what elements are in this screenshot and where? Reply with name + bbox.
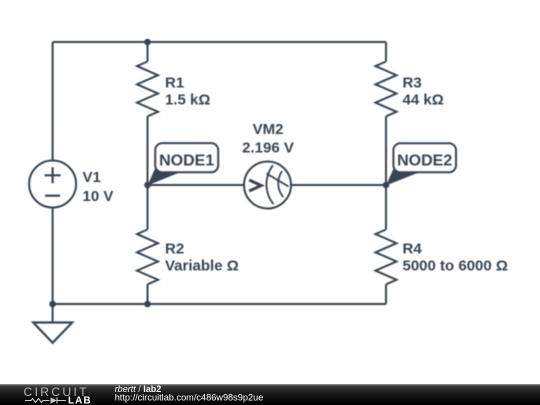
- junction bottom of R2: [144, 301, 151, 308]
- svg-text:R1: R1: [165, 75, 184, 92]
- logo resistor squiggle: [25, 399, 50, 403]
- wire R2 bottom stub: [147, 284, 149, 304]
- svg-text:LAB: LAB: [68, 395, 92, 405]
- VM2 meter arc left: [266, 165, 273, 204]
- wire NODE1 to voltmeter: [148, 184, 245, 186]
- wire R3 to NODE2: [385, 116, 387, 185]
- VM2 chevron: [249, 180, 261, 191]
- junction ground: [49, 301, 56, 308]
- NODE1 pointer tail: [148, 168, 183, 186]
- resistor R4: [376, 230, 397, 285]
- wire R1 to NODE1: [147, 116, 149, 185]
- resistor R1: [137, 62, 158, 117]
- V1 plus sign: [45, 167, 61, 183]
- junction NODE2: [383, 182, 390, 189]
- svg-text:10 V: 10 V: [83, 188, 114, 205]
- wire R1 top stub: [147, 42, 149, 62]
- svg-text:R2: R2: [165, 241, 184, 258]
- VM2 meter arc right: [278, 171, 283, 197]
- wire R4 bottom stub: [385, 284, 387, 304]
- VM2 needle: [267, 174, 289, 187]
- wire voltmeter to NODE2: [291, 184, 386, 186]
- svg-text:http://circuitlab.com/c486w98s: http://circuitlab.com/c486w98s9p2ue: [115, 393, 264, 403]
- wire NODE2 to R4: [385, 185, 387, 230]
- wire top rail: [53, 41, 386, 43]
- svg-text:2.196 V: 2.196 V: [242, 139, 294, 156]
- logo diode: [51, 398, 58, 404]
- NODE2 callout box: [393, 143, 456, 172]
- wire NODE1 to R2: [147, 185, 149, 230]
- wire left rail upper: [52, 42, 54, 161]
- junction NODE1: [144, 182, 151, 189]
- wire ground stub: [52, 304, 54, 323]
- svg-text:VM2: VM2: [253, 121, 284, 138]
- svg-text:R4: R4: [403, 241, 423, 258]
- svg-text:Variable Ω: Variable Ω: [165, 258, 239, 275]
- svg-text:V1: V1: [83, 169, 101, 186]
- wire R3 top stub: [385, 42, 387, 62]
- voltage source V1 circle: [29, 161, 76, 208]
- resistor R2: [137, 230, 158, 285]
- svg-text:NODE1: NODE1: [159, 152, 214, 169]
- NODE1 callout box: [155, 143, 218, 172]
- footer bar: [0, 384, 540, 405]
- wire bottom rail: [53, 303, 386, 305]
- NODE2 pointer tail: [386, 168, 421, 186]
- svg-text:5000 to 6000 Ω: 5000 to 6000 Ω: [403, 258, 508, 275]
- resistor R3: [376, 62, 397, 117]
- svg-text:R3: R3: [403, 75, 422, 92]
- junction top of R1: [144, 39, 151, 46]
- voltmeter VM2 circle: [244, 162, 291, 209]
- svg-text:44 kΩ: 44 kΩ: [403, 92, 444, 109]
- svg-text:1.5 kΩ: 1.5 kΩ: [165, 92, 210, 109]
- ground symbol: [33, 323, 72, 343]
- V1 minus sign: [45, 195, 60, 197]
- svg-text:NODE2: NODE2: [397, 153, 452, 170]
- wire left rail lower: [52, 208, 54, 305]
